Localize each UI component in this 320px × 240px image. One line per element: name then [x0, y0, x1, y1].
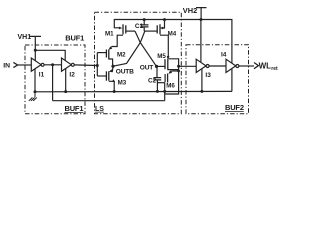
transistor M4 [163, 20, 165, 29]
wire M2 M3 gate line [96, 53, 98, 76]
capacitor C2 [154, 66, 162, 91]
svg-text:I1: I1 [39, 72, 45, 79]
transistor M6 [167, 74, 169, 83]
wire I2 ground pin [65, 68, 67, 91]
node I1 output junction [51, 63, 54, 66]
wire I1 ground pin [34, 69, 36, 92]
wire I4 to output [239, 65, 254, 67]
svg-text:M6: M6 [166, 82, 175, 89]
svg-text:C2: C2 [148, 77, 157, 84]
inverter I2 [62, 58, 72, 71]
node ground junction [34, 90, 37, 93]
svg-text:M3: M3 [118, 79, 127, 86]
svg-text:BUF1: BUF1 [65, 34, 84, 43]
svg-text:BUF2: BUF2 [225, 103, 244, 112]
svg-text:ret: ret [271, 66, 278, 72]
wire I1 output riser down [52, 65, 54, 101]
svg-text:IN: IN [3, 63, 10, 70]
node M3 source junction [113, 90, 116, 93]
node VH1 junction [34, 49, 37, 52]
wire cross-couple M4 gate wire to OUTB node [113, 31, 145, 66]
node OUT junction [155, 65, 158, 68]
node OUTB [111, 65, 114, 68]
svg-text:C1: C1 [135, 23, 144, 30]
svg-text:OUTB: OUTB [116, 69, 134, 76]
inverter I3 [196, 59, 206, 72]
power symbol VH1 [30, 36, 42, 60]
svg-text:M4: M4 [168, 30, 177, 37]
svg-text:I2: I2 [69, 72, 75, 79]
arrow output chevron [254, 63, 258, 69]
svg-text:WL: WL [259, 61, 272, 70]
wire OUT to M5 gate [157, 65, 166, 67]
node M5 source to I3 [177, 65, 180, 68]
wire VH2 drop to I3 [200, 20, 202, 63]
arrow IN chevron [13, 62, 17, 67]
wire ground rail [35, 90, 232, 92]
wire I4 ground pin [231, 69, 233, 92]
wire M6 gate riser [164, 83, 166, 101]
wire signal line2 to M6 [53, 100, 165, 102]
node I2 ground junction [64, 90, 67, 93]
svg-text:M5: M5 [157, 53, 166, 60]
svg-text:VH2: VH2 [183, 6, 197, 15]
wire cross-couple M1 gate to OUT node [135, 31, 157, 66]
box LS border [95, 12, 182, 114]
wire I3 ground pin [201, 69, 203, 92]
wire I2 to LS gate line [74, 64, 97, 67]
svg-text:VH1: VH1 [18, 34, 32, 41]
svg-text:LS: LS [95, 106, 104, 113]
svg-text:I4: I4 [221, 51, 227, 58]
svg-text:I3: I3 [205, 72, 211, 79]
power symbol VH2 [196, 8, 207, 20]
capacitor C1 [140, 20, 148, 32]
box BUF2 border [186, 45, 249, 114]
svg-text:BUF1: BUF1 [65, 104, 84, 113]
wire VH1 rail to I2 [35, 50, 65, 60]
wire IN to I1 [18, 64, 32, 66]
ground [29, 92, 37, 101]
inverter I4 [226, 59, 236, 72]
transistor M5 [164, 59, 166, 69]
transistor M1 [114, 20, 119, 28]
svg-text:M1: M1 [105, 31, 114, 38]
svg-text:OUT: OUT [140, 64, 153, 71]
inverter I1 [31, 58, 41, 71]
wire I3 to I4 [209, 65, 226, 67]
node LS input junction [96, 64, 99, 67]
box BUF1 border [25, 45, 85, 114]
wire OUT node to I3 [179, 65, 197, 67]
transistor M3 [108, 71, 110, 80]
node VH2 junction [200, 18, 203, 21]
transistor M2 [108, 49, 110, 59]
wire I1 to I2 [44, 64, 61, 66]
svg-text:M2: M2 [117, 51, 126, 58]
wire LS top rail [114, 20, 232, 64]
